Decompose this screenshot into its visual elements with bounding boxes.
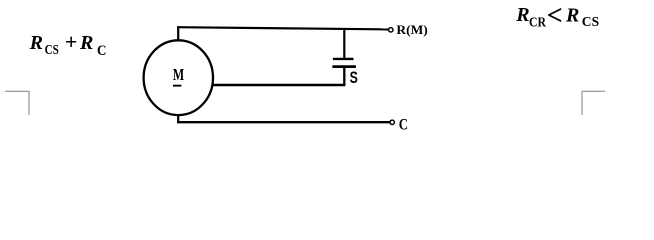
svg-text:C: C [399,116,408,133]
svg-text:<: < [547,1,563,32]
svg-text:C: C [97,43,106,59]
svg-text:R: R [79,32,93,54]
svg-text:R(M): R(M) [396,22,427,37]
svg-text:R: R [515,4,529,26]
svg-text:R: R [565,5,579,27]
svg-text:M: M [173,65,184,84]
svg-text:S: S [350,69,358,87]
svg-text:CS: CS [45,43,59,58]
svg-text:+: + [65,29,78,54]
svg-text:CR: CR [529,15,547,30]
svg-text:CS: CS [582,15,599,30]
svg-text:R: R [29,32,43,54]
